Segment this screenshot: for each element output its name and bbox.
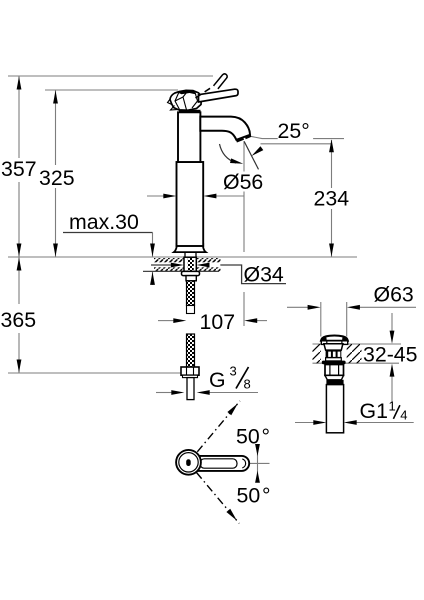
svg-text:G1: G1 (360, 399, 388, 423)
svg-text:325: 325 (39, 166, 75, 190)
svg-text:4: 4 (400, 408, 407, 423)
svg-text:Ø56: Ø56 (223, 170, 263, 194)
svg-text:G: G (209, 368, 226, 392)
svg-text:3: 3 (230, 364, 237, 379)
svg-text:Ø34: Ø34 (244, 263, 284, 287)
svg-text:50 °: 50 ° (237, 484, 271, 508)
svg-text:234: 234 (314, 187, 350, 211)
svg-text:1: 1 (389, 399, 396, 414)
svg-text:107: 107 (200, 310, 236, 334)
svg-text:Ø63: Ø63 (374, 283, 414, 307)
svg-text:25°: 25° (278, 119, 310, 143)
svg-text:50 °: 50 ° (236, 425, 270, 449)
svg-text:357: 357 (1, 157, 37, 181)
svg-text:max.30: max.30 (69, 210, 139, 234)
svg-text:32-45: 32-45 (363, 343, 417, 367)
svg-text:365: 365 (1, 308, 37, 332)
svg-text:8: 8 (244, 377, 251, 392)
